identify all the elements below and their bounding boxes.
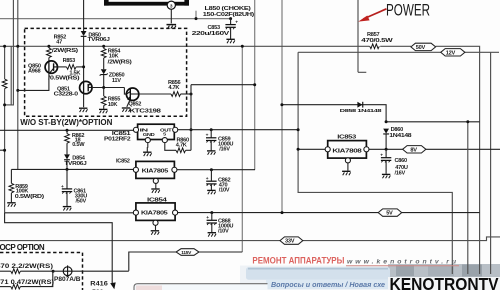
svg-text:/2W(RS): /2W(RS)	[52, 48, 79, 54]
resistor R857	[370, 44, 380, 49]
wire V x=358 top right	[358, 0, 366, 72]
wire V18 x=17.8	[17, 0, 19, 169]
transistor Q850	[45, 61, 57, 73]
wire 12V branch x=191	[190, 85, 192, 151]
wire IC853 gnd	[347, 163, 349, 171]
svg-text:150-C02F(82UH): 150-C02F(82UH)	[203, 12, 255, 18]
IC854 box	[136, 203, 175, 221]
svg-text:4.7K: 4.7K	[168, 85, 180, 91]
wire IC851 out line	[178, 129, 298, 131]
IC853 box	[328, 141, 367, 159]
wire V x=467.8 down	[467, 122, 469, 274]
red underline	[346, 265, 459, 267]
svg-text:Q852: Q852	[128, 101, 141, 107]
svg-text:C860: C860	[395, 158, 408, 164]
IC851 box	[138, 124, 175, 139]
voltage label 115V	[176, 249, 199, 256]
wire Q851 collector east	[92, 87, 124, 89]
svg-text:10K: 10K	[109, 53, 120, 59]
svg-text:/16V: /16V	[395, 170, 406, 176]
wire 8V line y=149.3	[369, 148, 500, 150]
svg-text:OCP OPTION: OCP OPTION	[0, 243, 45, 252]
wire stub west at y=150.2	[0, 149, 5, 151]
resistor unlabeled on V_A	[2, 79, 7, 89]
svg-text:50V: 50V	[416, 45, 426, 51]
svg-text:220u/160V: 220u/160V	[192, 31, 230, 37]
dashed box W/O ST-BY	[25, 28, 187, 116]
svg-text:C3228-0: C3228-0	[54, 92, 78, 98]
arrow R416 end	[110, 282, 116, 289]
capacitor C868	[210, 211, 213, 214]
resistor R854	[102, 45, 105, 48]
wire V2 gray rail x=254.7	[254, 0, 256, 170]
wire left V_A x=4.6	[4, 46, 6, 213]
svg-text:/0.5W(RS): /0.5W(RS)	[48, 75, 80, 81]
wire IC851 gnd	[147, 143, 149, 148]
svg-text:P807A/B: P807A/B	[54, 276, 81, 283]
wire 33V line y=240.6	[0, 237, 500, 241]
svg-text:GND: GND	[143, 132, 156, 138]
IC852 box	[136, 161, 175, 178]
svg-text:D858 1N4148: D858 1N4148	[340, 108, 382, 114]
svg-text:33V: 33V	[285, 239, 295, 245]
wire 115V line	[199, 251, 242, 253]
wire Q852 emitter ground	[127, 100, 130, 107]
resistor R871	[0, 286, 11, 288]
svg-text:/2W(RS): /2W(RS)	[108, 60, 132, 66]
svg-text:5V: 5V	[386, 211, 393, 217]
svg-text:TVR06J: TVR06J	[88, 37, 110, 43]
wire 12V line y=52.3	[298, 51, 441, 53]
svg-text:IC854: IC854	[147, 198, 168, 204]
transistor Q852	[124, 88, 126, 95]
svg-text:POWER: POWER	[386, 1, 430, 19]
dashed box OCP option	[0, 253, 83, 290]
svg-text:115V: 115V	[181, 250, 192, 256]
svg-text:4.7K: 4.7K	[176, 143, 188, 149]
voltage label 5V	[378, 209, 402, 217]
svg-text:KENOTRONTV: KENOTRONTV	[390, 274, 499, 290]
svg-text:R853: R853	[63, 58, 76, 64]
capacitor C861	[66, 169, 68, 188]
svg-text:IC853: IC853	[337, 134, 356, 140]
wire V_A jog to R416	[5, 213, 113, 285]
node dots left	[3, 45, 6, 48]
voltage label 8V	[403, 146, 426, 154]
svg-text:KIA7805: KIA7805	[141, 210, 168, 216]
svg-text:P012RF2: P012RF2	[104, 137, 130, 143]
svg-text:1N4148: 1N4148	[389, 133, 411, 139]
svg-text:8V: 8V	[410, 147, 417, 153]
svg-text:/50V: /50V	[76, 199, 87, 205]
diode D860	[383, 129, 389, 134]
svg-text:12V: 12V	[446, 50, 456, 56]
diode D854	[64, 154, 70, 159]
wire V3 gray rail x=282	[281, 0, 283, 213]
svg-text:OUT: OUT	[160, 127, 172, 133]
wire Q851 emitter to ground	[83, 94, 85, 107]
svg-text:R857: R857	[367, 32, 380, 38]
svg-text:/16V: /16V	[219, 147, 230, 153]
svg-text:/10V: /10V	[218, 228, 229, 234]
node dot choke	[195, 17, 198, 20]
resistor R859	[10, 169, 12, 183]
svg-text:11V: 11V	[112, 78, 121, 84]
capacitor C860	[385, 149, 387, 157]
wire IC852 gnd	[155, 184, 157, 189]
watermark band	[134, 264, 500, 290]
wire D858 line y=104.7	[282, 105, 386, 122]
svg-text:IC852: IC852	[116, 158, 130, 164]
wire 12V drop x=490.6	[490, 52, 492, 274]
pin 3 circle	[167, 1, 175, 9]
wire V1 gray rail x=242.3	[241, 46, 243, 252]
wire L_A y=212.8 to IC854	[5, 212, 134, 214]
wire left hairpin x=13.4/11.2	[11, 0, 13, 105]
capacitor C859	[210, 130, 212, 138]
transformer T801 thick bar	[104, 2, 189, 6]
svg-text:/10V: /10V	[219, 188, 230, 194]
svg-text:KTC3198: KTC3198	[130, 109, 161, 115]
transistor Q851	[80, 81, 92, 93]
svg-text:470/0.5W: 470/0.5W	[361, 38, 393, 44]
red arrow	[364, 9, 387, 19]
svg-text:R416: R416	[90, 280, 108, 287]
wire 5V line y=212.6	[178, 212, 480, 214]
resistor R852	[47, 45, 50, 48]
wire pin3 down	[170, 9, 172, 23]
svg-text:KIA7805: KIA7805	[142, 169, 169, 175]
svg-text:0.5W: 0.5W	[72, 142, 85, 148]
wire IC854 gnd	[155, 225, 157, 230]
capacitor C853	[230, 19, 232, 25]
wire 50V line right + drop x=479.6	[436, 46, 480, 274]
wire IC852 out east to V2	[177, 168, 254, 171]
svg-text:РЕМОНТ АППАРАТУРЫ: РЕМОНТ АППАРАТУРЫ	[252, 255, 344, 265]
chassis ground pin3	[167, 25, 177, 29]
diode D858	[357, 102, 362, 108]
svg-text:47: 47	[56, 39, 62, 45]
zener ZD850	[100, 69, 108, 75]
wire Q850 collector	[18, 73, 49, 90]
resistor R860 on S pin	[165, 143, 176, 151]
wire V4 x=298.1	[298, 52, 452, 274]
wire hairpin link to V_A	[5, 104, 12, 106]
voltage label 50V	[411, 43, 436, 51]
svg-text:TVR06J: TVR06J	[64, 161, 86, 167]
IC851 pins	[133, 127, 138, 132]
wire y=121.8 to x=479.6	[386, 121, 480, 123]
resistor R870	[0, 270, 11, 272]
svg-text:0.5W(RD): 0.5W(RD)	[15, 194, 44, 200]
wire L169 to IC852	[11, 168, 133, 170]
svg-text:471 0.47/2W(RS): 471 0.47/2W(RS)	[0, 279, 54, 286]
svg-text:A968: A968	[28, 68, 41, 74]
svg-text:W/O ST-BY(2W)*OPTION: W/O ST-BY(2W)*OPTION	[20, 118, 112, 127]
svg-text:KIA7808: KIA7808	[332, 148, 361, 154]
resistor R856	[139, 93, 171, 95]
wire H2 main 115V horizontal y=46.3	[0, 45, 370, 47]
resistor R853	[57, 66, 66, 68]
choke L850 stub	[195, 11, 197, 19]
svg-text:Вопросы и ответы / Новая схе: Вопросы и ответы / Новая схе	[271, 280, 385, 289]
capacitor C862	[210, 170, 212, 181]
connector P807A/B	[53, 270, 129, 272]
resistor R862	[66, 129, 69, 132]
wire L_IN y=130.3	[0, 129, 133, 131]
voltage label 33V	[280, 237, 303, 245]
diode D850 vertical wire	[83, 0, 85, 31]
voltage label 12V	[441, 49, 465, 57]
wire IC853 in from V4	[297, 148, 325, 150]
wire H1 main gray rail y=18.6	[0, 18, 231, 20]
svg-text:470 2.2/2W(RS): 470 2.2/2W(RS)	[0, 263, 53, 270]
svg-text:10K: 10K	[108, 102, 119, 108]
resistor R855	[103, 88, 105, 97]
